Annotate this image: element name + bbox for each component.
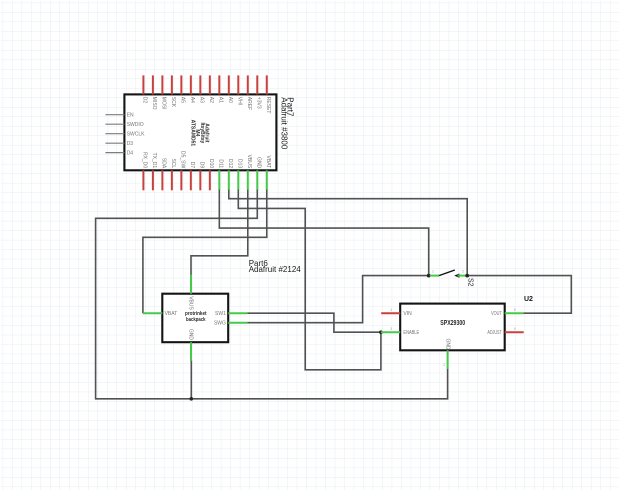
svg-text:EN: EN bbox=[127, 113, 134, 119]
Part7 top pin VHI (unconnected) bbox=[237, 75, 239, 94]
U2 pin GND (bottom, connected) bbox=[447, 350, 449, 369]
junction at U2 ENABLE bbox=[379, 330, 383, 334]
svg-text:AREF: AREF bbox=[246, 97, 252, 110]
switch S2 left contact leg bbox=[430, 275, 439, 277]
svg-text:ENABLE: ENABLE bbox=[403, 330, 419, 336]
svg-text:VIN: VIN bbox=[403, 311, 412, 317]
svg-text:+3V3: +3V3 bbox=[255, 97, 261, 109]
svg-text:VOUT: VOUT bbox=[491, 311, 502, 317]
Part7 bottom pin RX_D0 bbox=[142, 170, 144, 190]
Part7 top pin A2 (unconnected) bbox=[209, 75, 211, 94]
svg-text:A5: A5 bbox=[179, 97, 185, 103]
Part7 bottom pin D12 bbox=[228, 170, 230, 190]
Part7 bottom pin labels bbox=[141, 151, 270, 169]
Part7 top pin AREF (unconnected) bbox=[247, 75, 249, 94]
svg-text:1: 1 bbox=[432, 270, 434, 274]
svg-text:ATSAMD51: ATSAMD51 bbox=[189, 120, 195, 147]
svg-text:D11: D11 bbox=[217, 159, 223, 168]
U2 pin VIN (left, unconnected) bbox=[381, 312, 400, 314]
Part7 bottom pin D13 bbox=[237, 170, 239, 190]
svg-text:SPX29300: SPX29300 bbox=[440, 320, 465, 327]
Part7 bottom pin D11 bbox=[218, 170, 220, 190]
svg-text:5: 5 bbox=[514, 308, 516, 312]
Part7 bottom pin SCL bbox=[171, 170, 173, 190]
svg-text:VHI: VHI bbox=[236, 97, 242, 105]
svg-text:MOSI: MOSI bbox=[160, 97, 166, 110]
svg-text:D10: D10 bbox=[208, 159, 214, 168]
svg-text:TX_D1: TX_D1 bbox=[151, 153, 157, 169]
svg-text:D7: D7 bbox=[189, 162, 195, 169]
switch S2 arrow head at right contact bbox=[454, 274, 459, 278]
wire net D12: Part7 D12 pin to switch S2 right terminal bbox=[229, 190, 467, 276]
Part7 bottom pin D9 bbox=[199, 170, 201, 190]
Part7 top pin A4 (unconnected) bbox=[190, 75, 192, 94]
Part6 pin VBAT (left, connected) bbox=[143, 312, 162, 314]
svg-text:GND: GND bbox=[188, 329, 194, 341]
Part6 pin VBUS (top, connected) bbox=[190, 275, 192, 294]
Part7 left pin D3 (unconnected) bbox=[105, 142, 124, 144]
Part7 top pin A3 (unconnected) bbox=[199, 75, 201, 94]
svg-text:2: 2 bbox=[443, 363, 445, 367]
switch S2 pin number 2 bbox=[462, 270, 464, 274]
Part7 top pin A1 (unconnected) bbox=[218, 75, 220, 94]
U2 pin numbers bbox=[390, 308, 516, 367]
wire: Part6 SWG pin to switch S2 left terminal bbox=[247, 276, 429, 323]
svg-text:D12: D12 bbox=[227, 159, 233, 168]
junction at GND rail and Part6 GND bbox=[190, 397, 194, 401]
svg-text:VBUS: VBUS bbox=[246, 155, 252, 169]
voltage regulator U2 SPX29300 body bbox=[400, 304, 505, 351]
switch S2 pin number 1 bbox=[432, 270, 434, 274]
svg-text:A0: A0 bbox=[227, 97, 233, 103]
svg-text:3: 3 bbox=[390, 327, 392, 331]
Part7 left pin EN (unconnected) bbox=[105, 114, 124, 116]
svg-text:D3: D3 bbox=[127, 141, 134, 147]
svg-text:RESET: RESET bbox=[265, 97, 271, 114]
svg-text:1: 1 bbox=[390, 308, 392, 312]
svg-text:SWCLK: SWCLK bbox=[127, 131, 145, 137]
svg-text:A4: A4 bbox=[189, 97, 195, 103]
svg-text:Adafruit #2124: Adafruit #2124 bbox=[249, 265, 302, 274]
Part7 top pin +3V3 (unconnected) bbox=[256, 75, 258, 94]
svg-text:A2: A2 bbox=[208, 97, 214, 103]
svg-text:SCL: SCL bbox=[170, 158, 176, 168]
wire net VBUS: Part7 VBUS pin to Part6 VBUS pin bbox=[191, 190, 248, 275]
svg-text:backpack: backpack bbox=[186, 317, 206, 323]
svg-text:VBUS: VBUS bbox=[188, 296, 194, 310]
U2 pin ENABLE (left, connected) bbox=[381, 331, 400, 333]
Part6 pin SW1 (right, connected) bbox=[228, 312, 247, 314]
Part7 top pin MOSI (unconnected) bbox=[161, 75, 163, 94]
Part7 left pin labels bbox=[127, 113, 145, 157]
Part7 top pin labels bbox=[141, 97, 270, 114]
svg-text:A1: A1 bbox=[217, 97, 223, 103]
wire: S2 right terminal to U2 VOUT bbox=[467, 276, 571, 314]
Part7 bottom pin TX_D1 bbox=[152, 170, 154, 190]
Part7 top pin RESET (unconnected) bbox=[266, 75, 268, 94]
Part7 bottom pin D7 bbox=[190, 170, 192, 190]
Part7 part name label: Adafruit ItsyBitsy M4 ATSAMD51 bbox=[189, 120, 209, 147]
svg-text:4: 4 bbox=[514, 327, 516, 331]
svg-text:ADJUST: ADJUST bbox=[487, 330, 501, 336]
Part7 top pin SCK (unconnected) bbox=[171, 75, 173, 94]
switch S2 right terminal junction bbox=[465, 274, 469, 278]
wire net D11: Part7 D11 pin to switch S2 left terminal bbox=[219, 190, 428, 276]
wire net D13: Part7 D13 pin to U2 ENABLE junction bbox=[238, 190, 381, 370]
U2 pin labels bbox=[403, 311, 501, 350]
svg-text:D9: D9 bbox=[198, 162, 204, 169]
Part7 reference label "Part7 / Adafruit #3800" bbox=[280, 97, 295, 150]
svg-text:MISO: MISO bbox=[151, 97, 157, 110]
Part7 left pin SWDIO (unconnected) bbox=[105, 123, 124, 125]
Part7 bottom pin VBAT bbox=[266, 170, 268, 190]
svg-text:GND: GND bbox=[444, 339, 450, 351]
Part6 part name label "protrinket backpack" bbox=[185, 311, 207, 323]
svg-text:SCK: SCK bbox=[170, 97, 176, 108]
svg-text:D13: D13 bbox=[236, 159, 242, 168]
switch S2 reference label bbox=[466, 278, 473, 287]
svg-text:SW1: SW1 bbox=[215, 311, 226, 317]
Part7 bottom pin VBUS bbox=[247, 170, 249, 190]
svg-text:D4: D4 bbox=[127, 150, 134, 156]
svg-text:Adafruit #3800: Adafruit #3800 bbox=[280, 97, 289, 150]
svg-text:SWG: SWG bbox=[214, 321, 226, 327]
svg-text:RX_D0: RX_D0 bbox=[141, 152, 147, 168]
Part7 top pin D2 (unconnected) bbox=[142, 75, 144, 94]
Part7 top pin A5 (unconnected) bbox=[180, 75, 182, 94]
Part7 left pin SWCLK (unconnected) bbox=[105, 133, 124, 135]
Part6 pin GND (bottom, connected) bbox=[190, 342, 192, 361]
U2 pin ADJUST (right, unconnected) bbox=[505, 331, 524, 333]
U2 reference label bbox=[524, 296, 533, 303]
switch S2 right contact leg bbox=[458, 275, 467, 277]
Part7 top pin MISO (unconnected) bbox=[152, 75, 154, 94]
U2 pin VOUT (right, connected) bbox=[505, 312, 524, 314]
svg-text:D2: D2 bbox=[141, 97, 147, 104]
svg-text:VBAT: VBAT bbox=[265, 155, 271, 168]
svg-text:SWDIO: SWDIO bbox=[127, 122, 144, 128]
Part7 bottom pin SDA bbox=[161, 170, 163, 190]
svg-text:D5_SW: D5_SW bbox=[179, 151, 185, 169]
svg-text:2: 2 bbox=[462, 270, 464, 274]
Part6 reference label "Part6 / Adafruit #2124" bbox=[249, 259, 302, 274]
svg-text:S2: S2 bbox=[466, 278, 473, 287]
svg-text:GND: GND bbox=[255, 157, 261, 169]
svg-text:SDA: SDA bbox=[160, 158, 166, 169]
svg-text:VBAT: VBAT bbox=[165, 311, 178, 317]
IC Part6 Adafruit Pro Trinket backpack (Adafruit #2124) body bbox=[162, 294, 228, 343]
Part6 pin SWG (right, connected) bbox=[228, 322, 247, 324]
svg-text:U2: U2 bbox=[524, 296, 533, 303]
wire net GND: Part7 GND pin down-left-across bottom rail to U2 GND bbox=[96, 190, 448, 399]
switch S2 left terminal junction bbox=[427, 274, 431, 278]
Part7 left pin D4 (unconnected) bbox=[105, 152, 124, 154]
Part7 top pin A0 (unconnected) bbox=[228, 75, 230, 94]
wire GND branch: Part6 GND pin down to bottom rail bbox=[190, 360, 192, 399]
Part7 bottom pin D5_SW bbox=[180, 170, 182, 190]
Part6 pin labels bbox=[165, 296, 227, 340]
Part7 bottom pin D10 bbox=[209, 170, 211, 190]
wire: Part6 SW1 pin to U2 ENABLE junction bbox=[247, 313, 381, 332]
U2 part name label "SPX29300" bbox=[440, 320, 465, 327]
switch S2 lever bbox=[439, 270, 455, 276]
wire net VBAT: Part7 VBAT pin to Part6 VBAT pin bbox=[143, 190, 267, 313]
svg-text:A3: A3 bbox=[198, 97, 204, 103]
IC Part7 Adafruit ItsyBitsy M4 (Adafruit #3800) body bbox=[124, 94, 276, 170]
Part7 bottom pin GND bbox=[256, 170, 258, 190]
